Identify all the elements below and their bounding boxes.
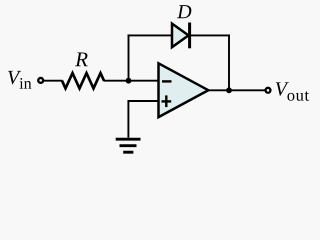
wire feedback top left segment xyxy=(128,34,173,36)
wire op-amp noninverting input to ground corner xyxy=(128,101,158,138)
label R xyxy=(75,52,88,66)
wire node B to output terminal xyxy=(229,89,265,91)
wire node A up to feedback branch xyxy=(128,34,130,80)
wire feedback top right segment xyxy=(190,34,230,36)
node A junction dot xyxy=(126,78,132,84)
wire op-amp output to node B xyxy=(208,89,230,91)
wire input terminal to resistor xyxy=(44,80,63,82)
input terminal Vin xyxy=(38,78,43,83)
diode D xyxy=(172,23,190,49)
wire feedback down to output node B xyxy=(228,34,230,90)
ground xyxy=(116,139,141,152)
output terminal Vout xyxy=(266,88,271,93)
node B junction dot xyxy=(226,87,232,93)
label Vin xyxy=(8,71,31,89)
label Vout xyxy=(276,82,309,100)
label D xyxy=(177,5,191,18)
wire node A to op-amp inverting input xyxy=(129,80,159,82)
op-amp U1 xyxy=(159,63,209,117)
wire resistor to node A xyxy=(104,80,129,82)
resistor R xyxy=(62,73,104,88)
